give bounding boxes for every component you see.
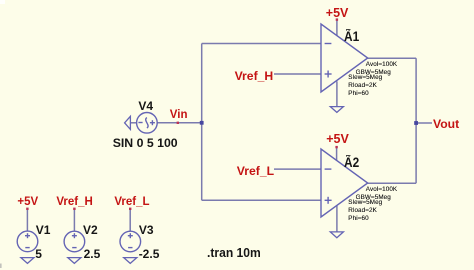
U2 parameter Rload=2K bbox=[348, 208, 377, 214]
spice directive .tran 10m bbox=[207, 247, 261, 260]
wire A1 ground pin bbox=[336, 81, 338, 106]
wire A2 ground pin bbox=[336, 206, 338, 232]
label anchor dot A2 +5V bbox=[335, 146, 337, 148]
ground under op-amp U1 bbox=[330, 107, 343, 113]
wire Vref_L to A2 minus input bbox=[274, 168, 321, 170]
ground under V2 bbox=[68, 258, 81, 264]
op-amp U2 triangle bbox=[321, 149, 368, 217]
wire V1 top pin bbox=[26, 209, 28, 232]
voltage source V3 circle bbox=[120, 231, 141, 252]
value 2.5 of V2 bbox=[84, 248, 101, 260]
wire A1 output bbox=[368, 57, 416, 59]
value -2.5 of V3 bbox=[139, 248, 160, 260]
designator U1 (A-tilde 1) bbox=[344, 30, 359, 44]
ground under op-amp U2 bbox=[330, 232, 343, 238]
value 5 of V1 bbox=[35, 248, 42, 260]
ground under V3 bbox=[124, 258, 137, 264]
junction node Vin at left bus bbox=[200, 121, 204, 125]
U1 parameter Avol=100K bbox=[366, 62, 397, 68]
wire A2 output bbox=[368, 182, 416, 184]
label anchor dot V1 bbox=[26, 208, 28, 210]
voltage source V1 circle bbox=[17, 231, 38, 252]
designator V2 bbox=[83, 224, 98, 236]
label anchor dot A1 +5V bbox=[336, 18, 338, 20]
U2 parameter Phi=60 bbox=[348, 216, 368, 222]
window corner artifact top-left bbox=[0, 0, 5, 4]
designator V1 bbox=[36, 224, 51, 236]
U1 parameter GBW=5Meg bbox=[356, 70, 391, 76]
net label Vout bbox=[433, 118, 459, 130]
net label +5V above op-amp U2 bbox=[326, 133, 349, 146]
op-amp U1 minus pin mark bbox=[325, 43, 332, 45]
net label +5V above V1 bbox=[17, 197, 38, 209]
wire A1 +5V power pin bbox=[336, 19, 338, 36]
wire Vref_H to A1 plus input bbox=[274, 73, 321, 75]
op-amp U2 minus pin mark bbox=[325, 168, 332, 170]
voltage source V4 circle (sine source, rotated) bbox=[137, 113, 158, 134]
window edge artifact bottom-left bbox=[0, 264, 2, 269]
op-amp U2 plus pin mark bbox=[325, 197, 332, 204]
U2 parameter Avol=100K bbox=[366, 187, 397, 193]
ground left of V4 bbox=[125, 116, 131, 129]
wire V4 ground stub bbox=[130, 122, 136, 124]
value SIN 0 5 100 of V4 bbox=[113, 137, 178, 149]
net label +5V above op-amp U1 bbox=[326, 7, 349, 20]
ground under V1 bbox=[21, 258, 34, 264]
junction node Vout at right bus bbox=[414, 121, 418, 125]
wire V2 top pin bbox=[73, 209, 75, 232]
wire left vertical Vin bus bbox=[201, 44, 203, 201]
wire A2 +5V power pin bbox=[336, 146, 338, 161]
op-amp U1 plus pin mark bbox=[325, 71, 332, 78]
wire A1 inverting input from left bus bbox=[202, 43, 321, 45]
net label Vref_H at A1 input bbox=[235, 70, 274, 82]
designator V4 bbox=[138, 100, 153, 112]
U1 parameter Slew=5Meg bbox=[348, 75, 382, 81]
wire right vertical Vout bus bbox=[415, 58, 417, 183]
wire A2 non-inverting input from left bus bbox=[202, 199, 321, 201]
label anchor dot V3 bbox=[129, 208, 131, 210]
label anchor dot V2 bbox=[73, 208, 75, 210]
net label Vin bbox=[170, 110, 188, 122]
net label Vref_L above V3 bbox=[114, 197, 149, 209]
U1 parameter Rload=2K bbox=[348, 83, 377, 89]
designator U2 (A-tilde 2) bbox=[344, 156, 359, 170]
U1 parameter Phi=60 bbox=[348, 91, 368, 97]
wire Vout stub bbox=[416, 122, 432, 124]
label anchor dot Vin bbox=[177, 122, 179, 124]
U2 parameter Slew=5Meg bbox=[348, 200, 382, 206]
voltage source V2 circle bbox=[64, 231, 85, 252]
net label Vref_H above V2 bbox=[56, 197, 92, 209]
op-amp U1 triangle bbox=[321, 24, 368, 92]
net label Vref_L at A2 input bbox=[237, 165, 274, 177]
wire V3 top pin bbox=[129, 209, 131, 232]
wire Vin from V4 to bus bbox=[157, 122, 202, 124]
U2 parameter GBW=5Meg bbox=[356, 195, 391, 201]
designator V3 bbox=[139, 224, 154, 236]
